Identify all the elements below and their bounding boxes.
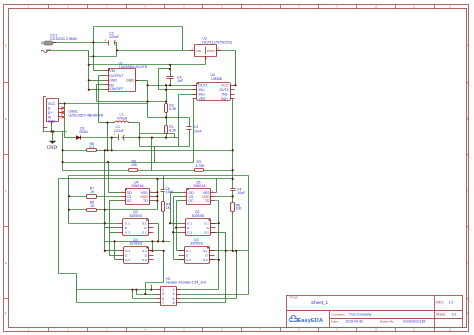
op-amp U1 LM2596S regulator [105, 69, 139, 92]
label U5 [194, 180, 207, 188]
title block frame [287, 296, 463, 328]
svg-text:220uF: 220uF [109, 35, 119, 39]
wire U4 VSS right [154, 192, 158, 194]
IC U5 DW01A battery protection [183, 189, 216, 205]
wire FB row to R2 top [97, 101, 167, 103]
label USB1 [69, 109, 104, 117]
wire U2 IN2+ long down [232, 99, 234, 171]
wire U1 GND pin feed [89, 80, 105, 82]
wire R1 bottom stub [166, 134, 168, 138]
wire Q1 S2 down [225, 233, 227, 303]
svg-text:Date:: Date: [331, 319, 339, 323]
svg-text:G.1: G.1 [187, 221, 192, 225]
wire Q1 D feed [177, 227, 181, 229]
svg-text:IN1-: IN1- [199, 88, 206, 92]
wire C4b string top [232, 171, 234, 189]
inductor L1 470uH [115, 121, 129, 123]
wire mid stub down [174, 134, 176, 138]
wire U4 OD feed [109, 192, 121, 194]
wire U4 TD right [154, 200, 158, 202]
svg-text:OC: OC [127, 199, 133, 203]
wire header pin4 row [181, 294, 249, 296]
wire Q4 S1 down [163, 251, 165, 283]
wire U5 OC vertical [176, 201, 178, 251]
resistor R8 [87, 149, 97, 152]
wire Q4 G2 feed [115, 259, 119, 261]
svg-text:SS54: SS54 [79, 130, 88, 134]
diode D1 SS54 [76, 135, 81, 140]
wire Hb left down [58, 179, 60, 274]
svg-text:10K: 10K [131, 163, 138, 167]
svg-text:VEE: VEE [199, 97, 207, 101]
wire Q3 S1 row [210, 250, 249, 252]
resistor R9 [129, 169, 138, 172]
label U4 [132, 180, 145, 188]
wire R3 right [204, 170, 233, 172]
wire Q1 S2 right [211, 232, 226, 234]
svg-text:OUT1: OUT1 [199, 83, 208, 87]
wire R2 up to C4 node [166, 86, 168, 104]
wire vertical DC to U1 VIN [93, 43, 95, 71]
label R8 [90, 142, 95, 149]
svg-text:LM2596S-ADJ/TR: LM2596S-ADJ/TR [119, 65, 148, 69]
wire C1 right [122, 137, 179, 139]
svg-text:REV:: REV: [436, 301, 444, 305]
wire U1 OUTPUT down [98, 76, 100, 123]
wire DC1 pin2 corner down [88, 51, 90, 57]
wire Q3 G2 feed [174, 259, 185, 261]
svg-text:10nF: 10nF [237, 191, 245, 195]
svg-text:LM358: LM358 [211, 77, 222, 81]
wire U5 OD vertical [170, 193, 172, 224]
svg-text:TD: TD [143, 199, 148, 203]
connector USB1 [43, 97, 64, 128]
label C4 [177, 75, 183, 82]
svg-text:8205SS: 8205SS [192, 214, 205, 218]
wire U5 TD down [218, 201, 220, 290]
svg-text:A: A [5, 44, 7, 48]
svg-text:U253-051T-4BH83-FB: U253-051T-4BH83-FB [69, 114, 104, 118]
wire header link down [145, 283, 147, 295]
capacitor C1 [114, 133, 125, 141]
wire U2 OUT1 row [148, 85, 197, 87]
svg-text:OC: OC [189, 199, 195, 203]
svg-text:220uF: 220uF [114, 129, 124, 133]
wire long row Hb [59, 178, 233, 180]
svg-text:8205SS: 8205SS [191, 242, 204, 246]
svg-text:S.1: S.1 [203, 249, 208, 253]
label C5 [165, 187, 173, 194]
svg-text:VOUT: VOUT [207, 49, 216, 53]
wire left chain vertical [104, 151, 106, 251]
wire C3 bottom hang [189, 130, 191, 147]
svg-text:8205SS: 8205SS [130, 214, 143, 218]
wire bottom left loop [59, 273, 77, 275]
wire C4 bottom hang [170, 79, 172, 86]
wire bottom of C2 loop [89, 56, 117, 58]
wire C3 return row [140, 146, 190, 148]
wire Q4 D feed [110, 255, 119, 257]
wire header pin7 row [77, 302, 156, 304]
wire R7 right to U4 CS [97, 196, 121, 198]
svg-text:S.2: S.2 [203, 258, 208, 262]
wire U4 OD vertical [108, 163, 110, 193]
wire Q3 G1 feed [177, 250, 185, 252]
wire USB GND row [43, 131, 67, 133]
wire header pin8 row [181, 302, 226, 304]
wire R6L left [69, 209, 87, 211]
svg-text:Easy: Easy [297, 318, 311, 324]
svg-text:IN2-: IN2- [222, 92, 229, 96]
wire header link row [146, 282, 164, 284]
svg-text:S.1: S.1 [204, 221, 209, 225]
wire U4 VDD right [154, 196, 158, 198]
svg-text:OUTPUT: OUTPUT [109, 74, 124, 78]
wire U4 OC down [109, 201, 111, 256]
svg-text:VCC: VCC [221, 83, 229, 87]
wire loop top [159, 68, 171, 70]
svg-text:Drawn By:: Drawn By: [380, 319, 394, 323]
wire R2 R1 join [166, 113, 168, 126]
wire U5 VSS up [216, 179, 218, 193]
svg-text:D+: D+ [48, 111, 53, 115]
svg-text:VCC: VCC [48, 102, 56, 106]
svg-text:1.0: 1.0 [449, 301, 454, 305]
svg-text:C3: C3 [194, 125, 199, 129]
svg-text:VIN: VIN [109, 69, 115, 73]
wire DC1 pin2 [49, 50, 89, 52]
wire row A [63, 150, 87, 152]
svg-text:S.1: S.1 [142, 249, 147, 253]
wire to L1 left [99, 122, 115, 124]
title block Sheet [436, 312, 456, 316]
svg-text:OUT2: OUT2 [219, 88, 228, 92]
wire R6L right [97, 209, 158, 211]
svg-text:DW01A: DW01A [194, 184, 207, 188]
svg-text:NCP1117ST50T3G: NCP1117ST50T3G [202, 40, 232, 44]
title block REV [436, 301, 453, 305]
wire R6R bottom [232, 212, 234, 251]
wire Q4 G1 feed [105, 250, 119, 252]
wire U1 right down [147, 81, 149, 118]
label C1 [114, 125, 124, 133]
resistor R2 [165, 104, 168, 113]
svg-text:VIN: VIN [196, 49, 201, 53]
wire Q2 S1 right [154, 223, 159, 225]
svg-text:E: E [467, 311, 469, 315]
label R1 [169, 125, 177, 133]
svg-text:IN1+: IN1+ [199, 92, 206, 96]
title block TITLE text [289, 296, 329, 305]
wire U2 VEE down [193, 99, 195, 163]
label D1 [79, 126, 88, 134]
connector H1 header female 2x4 [156, 287, 181, 306]
wire Q2 G2 feed [110, 232, 118, 234]
wire C4b string mid [232, 191, 234, 203]
capacitor C4 1nF [167, 77, 174, 79]
resistor R1 [165, 126, 168, 134]
wire mid vertical B [154, 147, 156, 163]
svg-text:3: 3 [162, 292, 164, 296]
wire D1 to C1 [81, 137, 119, 139]
svg-text:D-: D- [48, 106, 52, 110]
svg-text:1nF: 1nF [177, 79, 183, 83]
svg-text:1K: 1K [90, 190, 95, 194]
wire U3 out right [217, 50, 236, 52]
wire C5 top hang [163, 176, 165, 190]
wire GND symbol stem [52, 132, 54, 141]
op-amp U2 LM358 [193, 83, 235, 102]
label R4 [166, 203, 171, 210]
label H1 [166, 277, 206, 285]
svg-text:/ON/OFF: /ON/OFF [109, 87, 123, 91]
wire U1 GND right pin [136, 80, 148, 82]
capacitor C3 [187, 127, 192, 130]
EasyEDA logo [289, 316, 324, 325]
ground GND [47, 141, 58, 151]
svg-text:7: 7 [162, 301, 164, 305]
svg-text:A: A [467, 44, 469, 48]
svg-text:+: + [104, 39, 106, 43]
wire into U1 VIN pin [94, 70, 105, 72]
svg-text:C: C [467, 189, 469, 193]
wire Q1 S1 right [211, 223, 219, 225]
wire bottom left loop down [76, 274, 78, 303]
transistor Q1 8205 dual mosfet [181, 219, 216, 236]
wire U1 FB pin feed [97, 84, 105, 86]
voltage regulator U3 NCP1117ST50T3G [190, 45, 221, 61]
transistor Q4 8205 dual mosfet [119, 247, 154, 264]
wire row 162 [63, 162, 194, 164]
label Q3 [191, 238, 204, 246]
wire Q2 G1 feed [69, 223, 118, 225]
label DC1 [50, 33, 77, 41]
label U1 [119, 61, 148, 69]
svg-text:DCJ0202-2.5MM: DCJ0202-2.5MM [50, 37, 77, 41]
svg-text:Sheet_1: Sheet_1 [311, 300, 329, 305]
svg-text:DW01A: DW01A [132, 184, 145, 188]
wire Ha right down [248, 176, 250, 295]
wire U5 OC feed [177, 200, 183, 202]
svg-text:IN2+: IN2+ [221, 97, 228, 101]
label Q4 [130, 238, 143, 246]
wire main mid row D1 C1 [65, 137, 76, 139]
svg-text:C: C [5, 189, 7, 193]
wire junction dots [50, 41, 237, 295]
wire GND rail y65 [89, 64, 206, 66]
svg-text:Header-Female-2.54_2x4: Header-Female-2.54_2x4 [166, 281, 206, 285]
wire Q4 G2 vertical [114, 242, 116, 260]
label R2 [169, 103, 177, 111]
svg-text:G.2: G.2 [125, 230, 130, 234]
wire Q2 S1 vert [158, 224, 160, 242]
svg-text:Sheet:: Sheet: [436, 312, 446, 316]
svg-text:1K: 1K [166, 206, 171, 210]
wire Q4 S1 row [149, 250, 164, 252]
wire vertical left bus [88, 51, 90, 90]
svg-text:G.1: G.1 [125, 249, 130, 253]
svg-text:0.1: 0.1 [90, 145, 95, 149]
wire U3 out down to U2 VCC [235, 51, 237, 86]
transistor Q3 8205 dual mosfet [179, 247, 215, 264]
title block Date [331, 319, 425, 323]
capacitor C4b 10nF [231, 189, 236, 191]
wire header pin5 link [132, 290, 134, 299]
wire long row Ha [69, 175, 249, 177]
wire loop left vertical [158, 69, 160, 90]
wire Q3 S2 right [210, 259, 219, 261]
wire FB down [96, 85, 98, 102]
svg-text:TD: TD [205, 199, 210, 203]
svg-text:4.75K: 4.75K [196, 164, 206, 168]
svg-text:B: B [467, 117, 469, 121]
wire Q3 S right down [236, 251, 238, 299]
svg-text:D: D [5, 261, 7, 265]
svg-text:E: E [5, 311, 7, 315]
wire Ha left down [68, 176, 70, 224]
svg-text:4: 4 [173, 292, 175, 296]
capacitor C5 10nF [161, 190, 165, 192]
svg-text:2019-04-30: 2019-04-30 [346, 320, 363, 324]
wire C5 to R4 [163, 192, 165, 202]
wire IN1+ down [178, 95, 180, 147]
IC U4 DW01A battery protection [121, 189, 154, 205]
svg-text:GND: GND [47, 146, 58, 151]
wire U4 OC feed [110, 200, 121, 202]
resistor R3 [195, 169, 204, 172]
resistor R6 [87, 209, 97, 212]
wire L1 right down [139, 123, 141, 147]
wire header pin2 row [181, 289, 219, 291]
resistor R7 [87, 195, 97, 199]
wire L1 left tap down [107, 123, 109, 151]
wire R7 left [69, 196, 87, 198]
wire U2 IN1+ row [179, 94, 197, 96]
svg-text:EDA: EDA [311, 318, 324, 324]
svg-text:G.2: G.2 [187, 230, 192, 234]
svg-text:1K: 1K [90, 204, 95, 208]
svg-text:TITLE:: TITLE: [289, 296, 298, 300]
wire row 170 left [63, 170, 129, 172]
wire U4 right vertical [157, 179, 159, 210]
wire USB VCC row [63, 103, 148, 105]
svg-text:S.1: S.1 [142, 221, 147, 225]
wire row 170 mid [138, 170, 195, 172]
svg-text:G.1: G.1 [186, 249, 191, 253]
label L1 [117, 113, 128, 121]
svg-text:GND: GND [109, 79, 117, 83]
svg-text:Your Company: Your Company [349, 313, 372, 317]
svg-text:8: 8 [173, 301, 175, 305]
wire L1 right [129, 122, 140, 124]
wire C4 top hang [170, 65, 172, 77]
svg-text:470uH: 470uH [117, 116, 128, 120]
label C4b [237, 188, 245, 195]
wire header stub [151, 285, 153, 290]
label R9 [131, 160, 138, 168]
svg-text:mrmsnhmz183: mrmsnhmz183 [403, 320, 426, 324]
svg-text:B: B [5, 117, 7, 121]
svg-text:GND: GND [48, 120, 56, 124]
svg-text:Company:: Company: [331, 312, 345, 316]
capacitor C2 [104, 39, 115, 46]
label U2 [211, 73, 223, 81]
svg-text:G.2: G.2 [125, 258, 130, 262]
svg-text:GND: GND [126, 79, 134, 83]
resistor R6 right 100 [231, 203, 235, 212]
wire row B right end [178, 137, 180, 139]
wire R4 down [163, 212, 165, 242]
wire Q1 G1 feed [171, 223, 181, 225]
wire header pin5 row [133, 298, 156, 300]
resistor R4 [162, 202, 165, 212]
svg-text:USB1: USB1 [69, 109, 78, 113]
wire U3 GND pin down [205, 57, 207, 65]
label Q1 [192, 210, 205, 218]
wire VIN top rail down to U3 [182, 27, 184, 51]
wire Q4 S right chain [152, 242, 154, 251]
svg-text:G.2: G.2 [186, 258, 191, 262]
wire divider mid row [148, 117, 190, 119]
wire VIN up loop vertical [93, 27, 95, 43]
svg-text:S.2: S.2 [142, 258, 147, 262]
svg-text:1/1: 1/1 [452, 313, 457, 317]
title block Company [331, 312, 371, 316]
wire U1 ONOFF pin feed [89, 89, 105, 91]
wire Q2 D feed [105, 227, 118, 229]
svg-text:8205SS: 8205SS [130, 242, 143, 246]
wire header pin1 row [77, 289, 156, 291]
wire U2 IN1- row [159, 89, 197, 91]
connector DC1 DCJ0202-2.5MM [41, 41, 57, 53]
wire U1 OUTPUT pin feed [99, 75, 105, 77]
wire C1 tap down [111, 138, 113, 151]
svg-text:S.2: S.2 [142, 230, 147, 234]
wire mid stub row [140, 133, 175, 135]
svg-text:S.2: S.2 [204, 230, 209, 234]
svg-text:5.3K: 5.3K [169, 107, 177, 111]
wire U5 OD feed [171, 192, 183, 194]
wire DC1 to C2 top rail [53, 42, 109, 44]
label R7 [90, 186, 95, 194]
wire header pin3 row [137, 294, 156, 296]
svg-text:+: + [114, 133, 116, 137]
label R3 [196, 160, 206, 168]
wire USB GND pin down [51, 122, 53, 132]
wire header pin3 link [136, 290, 138, 295]
wire vertical C2 corner down [116, 43, 118, 57]
wire row 241 [105, 241, 171, 243]
wire USB VCC branch down [64, 104, 66, 138]
svg-text:G.1: G.1 [125, 221, 130, 225]
wire row A right of R8 [97, 150, 233, 152]
label R6 [90, 200, 95, 208]
svg-text:8.2K: 8.2K [169, 129, 177, 133]
svg-text:100: 100 [236, 207, 242, 211]
svg-text:10nF: 10nF [194, 129, 202, 133]
label C3 [194, 125, 202, 133]
svg-text:10nF: 10nF [166, 190, 174, 194]
svg-text:D: D [467, 261, 469, 265]
wire U5 VSS right [216, 192, 217, 194]
wire Q1 G2 feed [174, 232, 181, 234]
wire mid vertical A [151, 138, 153, 171]
wire U5 VDD right [216, 196, 233, 198]
label U3 [202, 37, 232, 45]
wire VIN top rail [94, 26, 183, 28]
wire U5 CS feed [174, 196, 183, 198]
wire C2 right to corner [115, 42, 117, 44]
